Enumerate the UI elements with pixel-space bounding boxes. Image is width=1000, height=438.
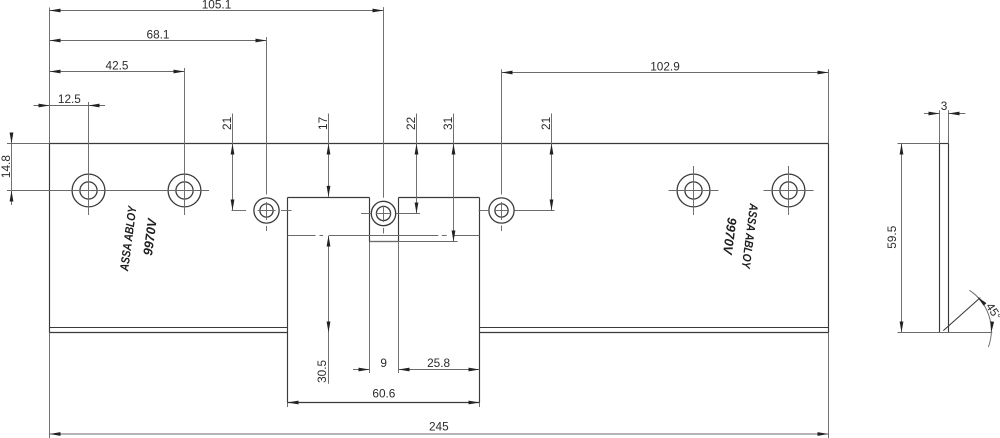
45 degree flange line <box>943 298 980 331</box>
svg-text:30.5: 30.5 <box>315 359 329 382</box>
svg-text:102.9: 102.9 <box>650 59 680 73</box>
svg-text:31: 31 <box>441 117 455 130</box>
hole S2 outer circle <box>489 198 514 223</box>
svg-text:245: 245 <box>429 419 449 433</box>
hole B1 inner circle <box>80 182 97 199</box>
hole B2 outer circle <box>168 174 201 207</box>
hole S1 inner circle <box>260 204 273 217</box>
extension line left edge bottom <box>49 333 51 438</box>
dimension 105.1 <box>50 10 384 12</box>
hole B4 inner circle <box>780 182 797 199</box>
window top edge left <box>288 197 370 199</box>
dimension 9 <box>353 369 370 371</box>
dimension 245 <box>50 433 829 435</box>
tongue right edge <box>479 198 481 403</box>
svg-text:12.5: 12.5 <box>58 92 81 106</box>
svg-text:105.1: 105.1 <box>202 0 232 11</box>
dimension 30.5 <box>328 236 330 384</box>
svg-text:14.8: 14.8 <box>0 155 13 178</box>
svg-text:68.1: 68.1 <box>147 27 170 41</box>
side view extension left up <box>939 110 941 143</box>
centerline hole B3 horizontal <box>669 190 719 192</box>
extension stub tongue right below <box>479 403 481 408</box>
centerline hole S2 horizontal <box>479 210 490 212</box>
dimension 31 <box>453 114 455 242</box>
plate right edge <box>828 144 830 333</box>
plate bottom edge left part <box>50 332 288 334</box>
extension line bridge right down <box>398 242 400 374</box>
hole B3 inner circle <box>685 182 702 199</box>
centerline hole B2 vertical <box>184 68 186 215</box>
plate left edge <box>49 144 51 333</box>
45 degree arc <box>969 290 991 347</box>
dimension 68.1 <box>50 40 267 42</box>
dimension 21 <box>551 114 553 211</box>
45 degree arc arrow upper <box>977 297 986 306</box>
dimension 17 <box>328 114 330 197</box>
hole B2 inner circle <box>176 182 193 199</box>
centerline left holes horizontal <box>7 190 209 192</box>
bend line right part <box>480 327 829 329</box>
center hole inner circle <box>376 206 390 220</box>
bridge bottom edge <box>370 241 399 243</box>
extension line left edge top <box>49 8 51 144</box>
window top edge right <box>399 197 480 199</box>
dimension 12.5 <box>34 105 106 107</box>
hole B3 outer circle <box>677 174 710 207</box>
svg-text:59.5: 59.5 <box>885 225 899 248</box>
tongue left edge <box>287 198 289 403</box>
dimension 102.9 <box>502 72 829 74</box>
dimension 42.5 <box>50 71 185 73</box>
dimension 60.6 <box>288 402 480 404</box>
45 degree arc arrow lower <box>990 321 994 332</box>
extension stub tongue left below <box>287 403 289 408</box>
centerline hole S2 vertical <box>501 69 503 194</box>
svg-text:25.8: 25.8 <box>427 356 450 370</box>
dimension 3 <box>924 113 940 115</box>
tongue bend centerline dash-dot <box>288 235 480 237</box>
hole S1 outer circle <box>254 198 279 223</box>
extension line right edge bottom <box>828 333 830 438</box>
side view top edge <box>940 143 949 145</box>
hole B4 outer circle <box>772 174 805 207</box>
dimension 21 <box>232 114 234 211</box>
side view extension right up <box>948 110 950 143</box>
extension line right edge top <box>828 69 830 144</box>
centerline hole B4 horizontal <box>764 190 814 192</box>
dimension 59.5 <box>901 144 903 333</box>
center hole outer circle <box>371 201 395 225</box>
hole B1 outer circle <box>72 174 105 207</box>
svg-text:17: 17 <box>316 117 330 130</box>
svg-text:60.6: 60.6 <box>372 387 395 401</box>
extension line bridge bottom <box>370 241 458 243</box>
side view baseline <box>898 332 993 334</box>
svg-text:21: 21 <box>539 117 553 130</box>
svg-text:3: 3 <box>941 99 948 113</box>
svg-text:21: 21 <box>220 117 234 130</box>
dimension 14.8 <box>11 136 13 206</box>
side view left edge <box>939 144 941 333</box>
centerline center hole horizontal <box>361 213 371 215</box>
dimension 25.8 <box>399 369 480 371</box>
plate bottom edge right part <box>480 332 829 334</box>
extension line top edge far left <box>7 143 50 145</box>
extension line side top left <box>898 143 940 145</box>
side view right edge <box>948 144 950 333</box>
centerline hole B3 vertical <box>693 166 695 215</box>
bridge left edge <box>369 198 371 242</box>
centerline hole B1 vertical <box>88 102 90 215</box>
centerline center hole vertical <box>383 7 385 198</box>
bridge right edge <box>398 198 400 242</box>
svg-text:22: 22 <box>404 117 418 130</box>
bend line left part <box>50 327 288 329</box>
plate top edge <box>50 143 829 145</box>
centerline hole B4 vertical <box>788 166 790 215</box>
extension line bridge left down <box>369 242 371 374</box>
centerline hole S1 horizontal <box>232 210 247 212</box>
hole S2 inner circle <box>495 204 508 217</box>
dimension 22 <box>416 114 418 214</box>
svg-text:9: 9 <box>380 356 387 370</box>
centerline hole S1 vertical <box>266 37 268 195</box>
svg-text:42.5: 42.5 <box>106 58 129 72</box>
